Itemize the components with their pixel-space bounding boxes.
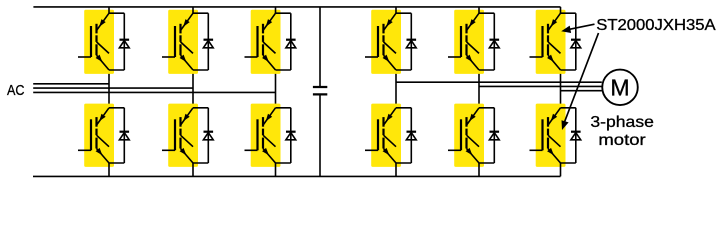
IGBT module highlight box (bottom cell 3) <box>251 104 281 167</box>
IGBT module highlight box (top cell 2) <box>168 10 198 74</box>
wire: motor phase U line <box>396 81 602 83</box>
freewheel diode D2 (top cell 2) <box>203 40 213 48</box>
IGBT module highlight box (top cell 6) <box>536 10 566 74</box>
IGBT Q8 (bottom cell 2, ST2000JXH35A module) <box>162 108 193 163</box>
IGBT module highlight box (bottom cell 2) <box>168 104 198 167</box>
freewheel diode D6 (top cell 6) <box>571 40 581 48</box>
wire: phase leg 6 midpoint vertical <box>560 70 562 109</box>
wire: top cell 5 collector/diode branch and emitter rail <box>479 7 494 70</box>
freewheel diode D7 (bottom cell 1) <box>119 132 129 140</box>
IGBT Q6 (top cell 6, ST2000JXH35A module) <box>530 13 561 70</box>
wire: AC input phase T line <box>33 91 275 93</box>
freewheel diode D10 (bottom cell 4) <box>406 132 416 140</box>
wire: AC input phase R line <box>33 83 109 85</box>
wire: bottom cell 3 collector/diode branch and emitter rail <box>276 108 291 177</box>
wire: top cell 6 collector/diode branch and emitter rail <box>561 7 576 70</box>
wire: DC-link capacitor top lead <box>319 7 321 86</box>
wire: bottom cell 6 collector/diode branch and emitter rail <box>561 108 576 177</box>
freewheel diode D9 (bottom cell 3) <box>286 132 296 140</box>
IGBT module highlight box (top cell 1) <box>84 10 114 74</box>
wire: bottom cell 2 collector/diode branch and emitter rail <box>193 108 208 177</box>
wire: bottom cell 4 collector/diode branch and emitter rail <box>396 108 411 177</box>
IGBT Q9 (bottom cell 3, ST2000JXH35A module) <box>245 108 276 163</box>
IGBT module highlight box (top cell 3) <box>251 10 281 74</box>
freewheel diode D1 (top cell 1) <box>119 40 129 48</box>
IGBT Q5 (top cell 5, ST2000JXH35A module) <box>448 13 479 70</box>
wire: bottom cell 5 collector/diode branch and emitter rail <box>479 108 494 177</box>
svg-text:motor: motor <box>598 132 646 149</box>
wire: top cell 2 collector/diode branch and emitter rail <box>193 7 208 70</box>
IGBT Q2 (top cell 2, ST2000JXH35A module) <box>162 13 193 70</box>
wire: phase leg 3 midpoint vertical <box>275 70 277 109</box>
wire: phase leg 2 midpoint vertical <box>192 70 194 109</box>
wire: phase leg 4 midpoint vertical <box>395 70 397 109</box>
IGBT module highlight box (bottom cell 5) <box>454 104 484 167</box>
freewheel diode D11 (bottom cell 5) <box>489 132 499 140</box>
wire: DC-link capacitor bottom lead <box>319 95 321 176</box>
leader arrow from label to top IGBT Q6 <box>568 24 595 30</box>
wire: top cell 4 collector/diode branch and emitter rail <box>396 7 411 70</box>
wire: bottom cell 1 collector/diode branch and emitter rail <box>109 108 124 177</box>
IGBT module highlight box (top cell 4) <box>371 10 401 74</box>
IGBT Q11 (bottom cell 5, ST2000JXH35A module) <box>448 108 479 163</box>
IGBT Q12 (bottom cell 6, ST2000JXH35A module) <box>530 108 561 163</box>
wire: AC input phase S line <box>33 87 193 89</box>
wire: DC+ top bus <box>33 6 560 8</box>
freewheel diode D5 (top cell 5) <box>489 40 499 48</box>
IGBT Q1 (top cell 1, ST2000JXH35A module) <box>78 13 109 70</box>
wire: phase leg 1 midpoint vertical <box>108 70 110 109</box>
freewheel diode D3 (top cell 3) <box>286 40 296 48</box>
capacitor C1 (DC-link) <box>313 87 327 94</box>
wire: motor phase W line <box>561 90 602 92</box>
IGBT module highlight box (bottom cell 1) <box>84 104 114 167</box>
svg-text:3-phase: 3-phase <box>590 114 654 131</box>
IGBT module highlight box (bottom cell 6) <box>536 104 566 167</box>
wire: top cell 1 collector/diode branch and emitter rail <box>109 7 124 70</box>
freewheel diode D12 (bottom cell 6) <box>571 132 581 140</box>
IGBT module highlight box (bottom cell 4) <box>371 104 401 167</box>
svg-text:ST2000JXH35A: ST2000JXH35A <box>596 17 716 34</box>
IGBT Q4 (top cell 4, ST2000JXH35A module) <box>365 13 396 70</box>
IGBT module highlight box (top cell 5) <box>454 10 484 74</box>
freewheel diode D4 (top cell 4) <box>406 40 416 48</box>
IGBT Q3 (top cell 3, ST2000JXH35A module) <box>245 13 276 70</box>
wire: motor phase V line <box>479 85 602 87</box>
IGBT Q7 (bottom cell 1, ST2000JXH35A module) <box>78 108 109 163</box>
svg-text:M: M <box>610 75 629 101</box>
leader arrow from label to bottom IGBT Q12 <box>565 33 599 122</box>
freewheel diode D8 (bottom cell 2) <box>203 132 213 140</box>
motor M1 circle <box>602 70 638 106</box>
IGBT Q10 (bottom cell 4, ST2000JXH35A module) <box>365 108 396 163</box>
wire: DC- bottom bus <box>33 175 561 177</box>
wire: phase leg 5 midpoint vertical <box>478 70 480 109</box>
svg-text:AC: AC <box>7 82 25 99</box>
wire: top cell 3 collector/diode branch and emitter rail <box>276 7 291 70</box>
